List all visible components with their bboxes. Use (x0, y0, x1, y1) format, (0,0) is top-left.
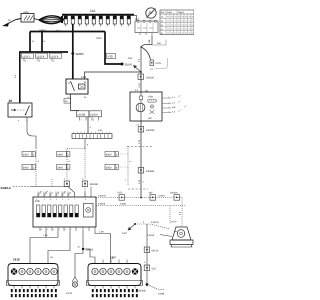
svg-text:34/26A: 34/26A (170, 192, 178, 195)
svg-text:A/B: A/B (172, 106, 176, 109)
svg-text:31/9B: 31/9B (158, 293, 165, 296)
fuse 7 (106, 16, 109, 24)
bulkhead dashed line lower (128, 188, 148, 190)
svg-text:1: 1 (36, 198, 37, 201)
variant chain x128 (dotted) (127, 146, 129, 186)
fuse 9 (120, 16, 123, 24)
boxed label 3450-1 (upper) (22, 152, 35, 157)
svg-text:15: 15 (32, 40, 35, 43)
svg-text:6974A: 6974A (152, 250, 159, 253)
crossed-circle section symbol (146, 8, 156, 18)
svg-text:31/76: 31/76 (66, 292, 73, 295)
panel lamp cell 6 (64, 205, 67, 217)
1616 terminals below (11, 289, 57, 297)
connector 31/9 on upper wire (117, 192, 125, 201)
svg-text:11A: 11A (90, 9, 96, 13)
svg-text:4: 4 (116, 154, 118, 157)
harness dashed lead (13, 186, 30, 188)
1616 pin 5 (43, 268, 49, 274)
svg-text:13A: 13A (98, 129, 103, 132)
off-page connector arrow (battery feed) (2, 19, 16, 27)
svg-text:4.3: 4.3 (172, 110, 176, 113)
svg-text:14/7: 14/7 (110, 256, 116, 260)
connector block 1417 housing (87, 264, 143, 286)
dotted chain left branch (66, 149, 68, 187)
svg-text:7: 7 (74, 198, 75, 201)
fan ground wire down (140, 121, 142, 198)
svg-text:15/2F4: 15/2F4 (36, 55, 45, 58)
blower fan unit box 5/1 (130, 92, 162, 121)
svg-text:3400: 3400 (106, 154, 112, 157)
svg-text:c: c (53, 229, 54, 231)
1616 pin 3 (27, 268, 33, 274)
bulkhead dashed line upper (127, 146, 153, 148)
connector 24/14B on right branch (82, 181, 98, 187)
15-feed bus (thick) (19, 51, 68, 53)
pump return wire down (146, 224, 148, 284)
svg-text:46A: 46A (157, 42, 161, 45)
ground splice 31/98 (138, 283, 165, 295)
panel lamp cell 1 (37, 205, 40, 217)
panel output wire B (48, 231, 70, 264)
svg-text:+30: +30 (108, 55, 113, 59)
panel output wire upper right (dotted) (96, 197, 142, 199)
connector pair box 14/26B (77, 111, 90, 122)
connector 24/10D (138, 127, 154, 133)
fuse strip / central electrical unit bus bar (62, 9, 134, 27)
svg-text:03/4: 03/4 (128, 57, 133, 60)
svg-text:7/105: 7/105 (155, 62, 162, 65)
fuse 2 (71, 16, 74, 24)
svg-text:A: A (144, 261, 146, 264)
svg-text:4: 4 (143, 221, 145, 224)
off-page arrow left-down (133, 65, 141, 72)
ignition switch box 11/1 (135, 18, 158, 33)
boxed label +30 (107, 54, 116, 59)
svg-text:2BL: 2BL (148, 38, 151, 43)
panel lamp cell 4 (53, 205, 56, 217)
svg-text:4: 4 (130, 160, 132, 163)
svg-text:85: 85 (84, 96, 87, 99)
svg-text:4.1: 4.1 (172, 96, 176, 99)
1616 pin stubs to housing (14, 286, 54, 289)
svg-text:24/14B: 24/14B (90, 183, 98, 186)
svg-text:5: 5 (62, 198, 63, 201)
svg-text:3450: 3450 (57, 167, 63, 170)
1417 pin 5 (124, 268, 130, 274)
svg-text:0.5GR: 0.5GR (159, 195, 166, 198)
svg-text:f: f (71, 228, 72, 231)
svg-text:2: 2 (82, 178, 84, 181)
svg-text:1B: 1B (50, 256, 53, 259)
fusible link box 6/46 (21, 11, 34, 22)
svg-text:5: 5 (93, 119, 94, 122)
svg-text:86: 86 (84, 81, 87, 84)
panel bottom pins (40, 227, 95, 231)
svg-text:e: e (65, 229, 66, 231)
connector 24/14D (138, 168, 154, 174)
svg-text:14/26B: 14/26B (77, 114, 85, 117)
svg-text:4: 4 (69, 160, 71, 163)
svg-text:4: 4 (116, 167, 118, 170)
svg-text:d: d (59, 228, 60, 231)
connector 44F on upper wire (149, 192, 156, 201)
svg-text:0.5: 0.5 (138, 58, 141, 62)
svg-text:24/10C: 24/10C (146, 77, 154, 80)
svg-text:0.5: 0.5 (178, 211, 181, 215)
svg-text:2D5/6: 2D5/6 (125, 63, 133, 67)
svg-text:24/10D: 24/10D (146, 129, 154, 132)
fuse 6 (99, 16, 102, 24)
connector 7/105 (150, 60, 162, 71)
ground lead G31/76 (66, 277, 78, 295)
1616 pin 6 (51, 268, 57, 274)
svg-text:0.35GR: 0.35GR (98, 195, 106, 198)
boxed label 3450 on left branch (57, 165, 70, 170)
svg-text:24/14D: 24/14D (146, 170, 154, 173)
fuse ref box 15/2F1 (22, 53, 34, 62)
svg-text:7975: 7975 (117, 192, 123, 195)
gray variant wire lower right (155, 58, 168, 69)
svg-text:171: 171 (150, 68, 154, 71)
svg-text:15/2F8: 15/2F8 (50, 55, 59, 58)
svg-text:1: 1 (33, 154, 35, 157)
gray variant wire right (152, 40, 166, 46)
1417 pin 6 (marked) (132, 268, 138, 274)
svg-text:G540B: G540B (138, 290, 146, 293)
svg-text:6: 6 (68, 198, 69, 201)
boxed label 3450-4 (105, 165, 128, 170)
connector pair box 14/26A (89, 111, 102, 122)
mid variant stub (51, 179, 53, 187)
svg-text:OCT: OCT (152, 268, 158, 271)
fuse 3 (78, 16, 81, 24)
relay output wire down (71, 94, 80, 111)
thermoswitch blade (140, 45, 152, 60)
svg-text:Pos: Pos (161, 11, 165, 14)
boxed label 3400-4 (105, 152, 128, 157)
svg-text:2: 2 (125, 179, 127, 182)
relay coil wire to switch line (thin, up and right) (85, 72, 142, 79)
svg-text:b: b (47, 228, 48, 231)
svg-text:0.5SB: 0.5SB (120, 203, 126, 206)
ignition box pins (140, 33, 152, 37)
svg-text:5: 5 (25, 60, 27, 63)
panel lamp cell 2 (42, 205, 45, 217)
switch lower leg (140, 47, 142, 72)
svg-text:1: 1 (33, 167, 35, 170)
svg-text:29: 29 (9, 99, 13, 103)
heater control panel 17B (33, 197, 96, 227)
variant wire (dotted) down-left chain (35, 148, 37, 187)
svg-text:0.75: 0.75 (138, 139, 141, 144)
panel switch sub-box (84, 204, 94, 218)
svg-text:4: 4 (56, 198, 57, 201)
bottom pin labels (41, 228, 72, 231)
svg-text:11/6: 11/6 (81, 75, 87, 79)
svg-text:1970: 1970 (171, 221, 177, 224)
junction fan feed (140, 71, 142, 73)
harness lens (wire bundle) (39, 16, 64, 24)
svg-text:25W: 25W (148, 96, 154, 99)
svg-text:4: 4 (38, 160, 40, 163)
svg-text:a: a (41, 229, 42, 231)
svg-text:15/2F1: 15/2F1 (22, 55, 31, 58)
switch 29 output wire (27, 117, 36, 148)
node 2B006 (71, 52, 84, 56)
svg-text:2: 2 (64, 178, 66, 181)
wire ignition-to-thermoswitch (151, 36, 153, 45)
panel output wire lower right (dotted) (96, 206, 185, 224)
svg-text:3450: 3450 (23, 167, 29, 170)
svg-text:1: 1 (67, 154, 69, 157)
svg-text:1616: 1616 (13, 258, 20, 262)
svg-text:2B006: 2B006 (76, 52, 85, 56)
svg-text:14/26A: 14/26A (90, 114, 98, 117)
svg-text:30: 30 (78, 246, 81, 249)
svg-text:1: 1 (67, 167, 69, 170)
1616 pin 4 (35, 268, 41, 274)
svg-text:0.75: 0.75 (138, 179, 141, 184)
connector 6974 on return (144, 247, 159, 253)
svg-text:5: 5 (53, 60, 55, 63)
svg-text:6/46: 6/46 (24, 11, 30, 14)
svg-text:9: 9 (44, 40, 46, 43)
svg-text:b: b (18, 119, 19, 122)
bus drop mid (41, 32, 43, 53)
svg-text:31: 31 (65, 100, 68, 103)
svg-text:31/9: 31/9 (122, 232, 127, 235)
connector 34/26A on upper wire (170, 192, 180, 201)
panel output wire C (to node 69403) (75, 231, 83, 277)
svg-text:1.5B: 1.5B (43, 234, 48, 237)
fuse 5 (92, 16, 95, 24)
continuation to pump feed (142, 198, 182, 228)
legend table (160, 10, 194, 35)
fuse ref box 15/2F4 (36, 53, 48, 62)
diagonal label leads to pump (160, 235, 172, 237)
1417 terminals below (92, 289, 138, 297)
svg-text:44F: 44F (149, 192, 154, 195)
svg-text:3: 3 (50, 198, 51, 201)
harness bus to panel (30, 187, 75, 198)
svg-text:A/C: A/C (148, 117, 152, 120)
svg-text:8: 8 (85, 198, 86, 201)
svg-text:2: 2 (44, 198, 45, 201)
boxed label 3400 on left branch (57, 152, 70, 157)
1616 pin 1 (marked) (11, 268, 17, 274)
connector 24/14A on left branch (64, 181, 70, 187)
1616 pin 2 (19, 268, 25, 274)
1417 top stubs (103, 260, 127, 264)
feed wire fuse2-to-relay (thick) (72, 24, 74, 79)
panel output wire D (to 1417 pin 3) (95, 231, 111, 264)
svg-text:3450: 3450 (106, 167, 112, 170)
connector block 1616 housing (7, 264, 60, 286)
relay 11/6 (66, 75, 88, 99)
1417 pin 3 (108, 268, 114, 274)
svg-text:3450: 3450 (23, 154, 29, 157)
svg-text:11/1: 11/1 (135, 18, 140, 21)
panel output wire A (to 1616 pin) (30, 231, 58, 264)
wire link-to-harness (34, 19, 39, 21)
svg-text:C202: C202 (96, 37, 102, 40)
panel lamp cell 8 (75, 205, 78, 217)
aspirator pump pictorial (170, 227, 193, 247)
right feed drop +30 (thick) (105, 32, 122, 65)
boxed label 30.1 on relay output (64, 99, 71, 104)
svg-text:1.5R: 1.5R (99, 231, 104, 234)
dotted split horizontal (67, 148, 85, 150)
node 2D5/6 (121, 63, 133, 67)
svg-text:5: 5 (39, 60, 41, 63)
1417 pin 4 (116, 268, 122, 274)
panel lamp cell 5 (59, 205, 62, 217)
fuse ref box 15/2F8 (50, 53, 62, 62)
node 69403 (78, 246, 94, 252)
rail output wire (84, 139, 86, 149)
connector 24/10C (138, 74, 154, 80)
svg-text:0.75: 0.75 (138, 82, 141, 87)
boxed label 3450-2 (lower) (22, 165, 35, 170)
panel lamp cell 3 (48, 205, 51, 217)
svg-text:0.35SB: 0.35SB (98, 203, 106, 206)
fuse 10 (127, 16, 130, 24)
splice junction with arrow (122, 221, 170, 236)
svg-text:4: 4 (90, 126, 92, 129)
branch to connector 1417 (83, 249, 95, 264)
svg-text:31: 31 (137, 124, 140, 127)
wire to fusible link (16, 19, 21, 20)
fuse 1 (64, 16, 67, 24)
rotated wire labels above pins (37, 190, 72, 197)
fuse 8 (113, 16, 116, 24)
connector rail 13A (72, 129, 112, 139)
dotted chain right branch (84, 149, 86, 198)
svg-text:Signal: Signal (178, 11, 184, 14)
pin stub wires into panel (38, 187, 91, 198)
bus drop left (29, 32, 31, 53)
connector 31/51 on return (144, 265, 157, 271)
wire switch-to-fanbox (140, 72, 142, 92)
svg-text:8: 8 (87, 144, 89, 147)
svg-text:1.5: 1.5 (14, 74, 17, 78)
svg-text:30: 30 (8, 19, 11, 22)
svg-text:5: 5 (143, 181, 145, 184)
svg-text:7: 7 (81, 119, 82, 122)
svg-text:4.2: 4.2 (172, 101, 176, 104)
svg-text:3400: 3400 (57, 154, 63, 157)
main +30 bus (thick) under fuse strip (30, 31, 105, 33)
wire strip-to-ignition box (134, 16, 137, 22)
wire connector-to-rail (87, 117, 89, 134)
switch 29 (ignition-fed switch) (8, 99, 32, 122)
svg-text:0.35SB: 0.35SB (147, 234, 155, 237)
1417 pin 1 (92, 268, 98, 274)
svg-text:0.35GR: 0.35GR (151, 221, 159, 224)
1417 pin stubs below (95, 286, 135, 289)
15-feed drop to switch (thick) (19, 52, 21, 103)
fan speed ref boxes right (162, 95, 187, 113)
svg-text:Svart: Svart (167, 11, 172, 14)
svg-text:4.5: 4.5 (135, 89, 139, 92)
svg-text:34/26-2: 34/26-2 (1, 186, 12, 190)
panel lamp cell 7 (70, 205, 73, 217)
fuse 4 (85, 16, 88, 24)
1417 pin 2 (100, 268, 106, 274)
